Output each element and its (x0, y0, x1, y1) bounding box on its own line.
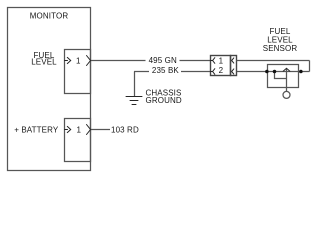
wire pin1 to sensor top (237, 60, 310, 62)
svg-text:235 BK: 235 BK (152, 66, 180, 75)
junction dot sensor right (299, 70, 303, 74)
wire 103 RD segment (91, 129, 110, 131)
sensor box (268, 65, 299, 88)
wire wrap return (301, 71, 310, 73)
svg-text:SENSOR: SENSOR (263, 44, 298, 53)
wire wrap right vertical (309, 61, 311, 72)
pin 1 exit arrow (fuel) (87, 56, 91, 66)
inline pin 1 chevron receptacle (232, 58, 234, 63)
sensor wiper arrowhead (283, 68, 290, 71)
sensor wiper stem (286, 69, 288, 92)
sensor wiper tie link (275, 72, 287, 79)
pin 1 arrow inner (battery) (65, 129, 68, 131)
junction dot wiper tie (273, 70, 277, 74)
svg-text:1: 1 (76, 56, 81, 65)
svg-text:MONITOR: MONITOR (30, 11, 69, 20)
wire 235 BK right segment (181, 71, 211, 73)
svg-text:495 GN: 495 GN (149, 56, 177, 65)
svg-text:1: 1 (219, 56, 224, 65)
wire 235 BK segment to ground corner (134, 71, 149, 73)
svg-text:+ BATTERY: + BATTERY (14, 125, 59, 134)
svg-text:103 RD: 103 RD (111, 125, 139, 134)
wire 495 GN right segment (180, 60, 211, 62)
svg-text:1: 1 (77, 125, 82, 134)
wire ground drop (134, 72, 136, 97)
wire 495 GN left segment (91, 60, 146, 62)
inline connector receptacle box (231, 56, 237, 76)
inline pin 2 chevron plug (211, 71, 213, 73)
wire pin2 to sensor (237, 71, 301, 73)
svg-text:2: 2 (219, 66, 224, 75)
connector J2 box (battery) (65, 119, 91, 162)
pin 1 arrow inner (fuel) (65, 60, 68, 62)
svg-text:LEVEL: LEVEL (31, 58, 57, 67)
inline pin 2 chevron receptacle (232, 69, 234, 74)
inline connector plug box (211, 56, 231, 76)
junction dot sensor left (265, 70, 269, 74)
pin 1 exit arrow (battery) (87, 125, 91, 135)
inline pin 1 chevron plug (211, 60, 213, 62)
monitor box (8, 8, 91, 171)
sensor float circle (283, 91, 290, 98)
chassis ground symbol (126, 96, 142, 98)
connector J1 box (fuel level) (65, 50, 91, 94)
svg-text:GROUND: GROUND (146, 96, 182, 105)
